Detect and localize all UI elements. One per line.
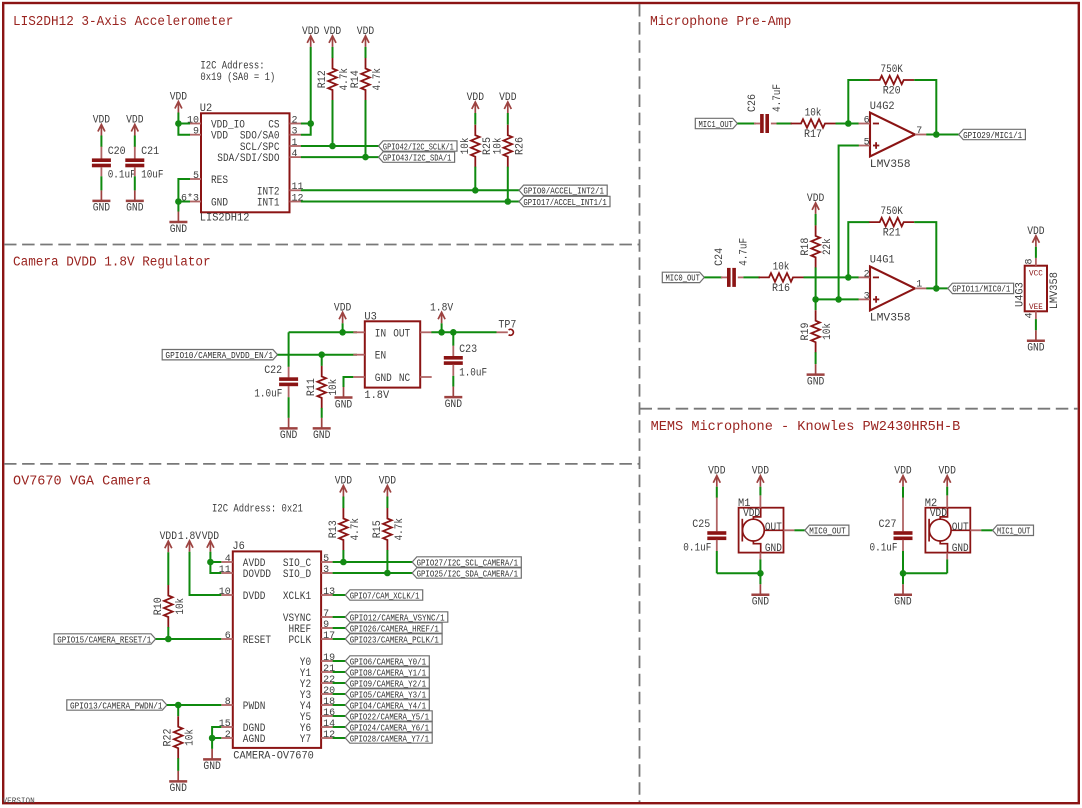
wire R12 to SCL	[332, 100, 334, 146]
svg-text:NC: NC	[399, 373, 411, 385]
svg-text:1.8V: 1.8V	[178, 531, 202, 543]
svg-text:1: 1	[916, 280, 922, 291]
svg-text:SDA/SDI/SDO: SDA/SDI/SDO	[217, 153, 280, 165]
VDD power symbol (R15)	[384, 486, 391, 497]
svg-text:GND: GND	[1027, 343, 1045, 355]
svg-text:MEMS Microphone - Knowles PW24: MEMS Microphone - Knowles PW2430HR5H-B	[651, 420, 961, 435]
GND power symbol (R22)	[169, 771, 187, 782]
svg-text:C23: C23	[459, 344, 477, 356]
wire U4G3 VEE to GND	[1035, 319, 1037, 330]
svg-text:12: 12	[323, 730, 335, 741]
capacitor C23 lower lead	[452, 365, 454, 376]
svg-text:VDD: VDD	[202, 531, 220, 543]
wire VDD to U4G3 VCC	[1035, 247, 1037, 258]
svg-text:15: 15	[219, 719, 231, 730]
svg-text:7: 7	[916, 126, 922, 137]
resistor R16 10k	[759, 273, 804, 282]
wire SIO_C to label	[333, 561, 413, 563]
svg-text:Y7: Y7	[300, 734, 311, 746]
svg-text:VDD: VDD	[335, 476, 353, 488]
svg-text:VDD: VDD	[499, 92, 517, 104]
svg-text:RESET: RESET	[243, 635, 272, 647]
wire U2 INT1 to label	[301, 201, 519, 203]
svg-text:GPIO28/CAMERA_Y7/1: GPIO28/CAMERA_Y7/1	[350, 734, 429, 744]
svg-text:6: 6	[225, 631, 231, 642]
svg-text:20: 20	[323, 686, 335, 697]
svg-text:4.7uF: 4.7uF	[739, 238, 751, 266]
junction SIO_C net	[340, 559, 347, 566]
GND power symbol (R11)	[313, 418, 331, 429]
hierarchical label GPIO7/CAM_XCLK/1	[345, 590, 422, 600]
svg-text:5: 5	[193, 171, 199, 182]
wire ground rail	[717, 572, 761, 574]
svg-text:EN: EN	[375, 351, 386, 363]
capacitor C21 10uF	[125, 158, 144, 167]
M1 VDD pin stub	[759, 495, 761, 507]
svg-text:GND: GND	[445, 399, 463, 411]
wire R25 to INT2	[474, 167, 476, 191]
svg-text:LMV358: LMV358	[870, 159, 911, 171]
wire U3 GND pin to GND	[344, 377, 354, 387]
wire M1 GND pin down	[759, 559, 761, 573]
svg-text:RES: RES	[211, 175, 228, 187]
VDD power symbol (U3 IN)	[339, 312, 346, 323]
svg-text:10k: 10k	[805, 108, 822, 120]
hierarchical label GPIO11/MIC0/1	[948, 283, 1014, 293]
hierarchical label GPIO12/CAMERA_VSYNC/1	[345, 612, 448, 622]
svg-text:VCC: VCC	[1029, 269, 1043, 279]
svg-text:VDD: VDD	[357, 26, 375, 38]
wire U2 SCL/SPC to label	[301, 145, 379, 147]
junction C23	[450, 329, 457, 336]
GND power symbol (C20)	[92, 190, 110, 201]
svg-text:21: 21	[323, 664, 335, 675]
svg-text:4: 4	[292, 149, 298, 160]
svg-text:IN: IN	[375, 328, 386, 340]
junction EN/R11 net	[318, 351, 325, 358]
svg-text:R14: R14	[350, 70, 362, 88]
hierarchical label GPIO4/CAMERA_Y4/1	[345, 700, 429, 710]
junction 1.8V power flag	[438, 329, 445, 336]
svg-text:R11: R11	[306, 378, 318, 396]
svg-text:GPIO23/CAMERA_PCLK/1: GPIO23/CAMERA_PCLK/1	[350, 635, 439, 645]
svg-text:VDD: VDD	[302, 26, 320, 38]
wire U4G1 output to label	[926, 287, 948, 289]
svg-text:17: 17	[323, 631, 335, 642]
svg-text:18: 18	[323, 697, 335, 708]
svg-text:VDD: VDD	[126, 115, 144, 127]
capacitor C21 lower lead	[134, 167, 136, 176]
svg-text:GND: GND	[170, 783, 188, 795]
test point TP7	[497, 331, 508, 333]
svg-text:VEE: VEE	[1029, 302, 1043, 312]
svg-text:VDD: VDD	[939, 466, 957, 478]
svg-text:VDD_IO: VDD_IO	[211, 120, 245, 132]
svg-text:8: 8	[225, 697, 231, 708]
svg-text:GPIO8/CAMERA_Y1/1: GPIO8/CAMERA_Y1/1	[350, 668, 426, 678]
svg-text:4.7k: 4.7k	[394, 518, 406, 541]
hierarchical label GPIO17/ACCEL_INT1/1	[519, 196, 610, 206]
svg-text:GPIO0/ACCEL_INT2/1: GPIO0/ACCEL_INT2/1	[523, 187, 604, 197]
wire J6 to GPIO8/CAMERA_Y1/1	[333, 671, 346, 673]
svg-text:GPIO10/CAMERA_DVDD_EN/1: GPIO10/CAMERA_DVDD_EN/1	[165, 351, 273, 361]
capacitor C26 leads	[754, 123, 760, 125]
capacitor C26 4.7uF	[760, 114, 769, 133]
M2 OUT pin stub	[970, 529, 981, 531]
svg-text:4.7k: 4.7k	[372, 68, 384, 91]
junction PWDN net	[175, 702, 182, 709]
capacitor C25 long upper lead	[716, 498, 718, 532]
svg-text:TP7: TP7	[498, 319, 516, 331]
VDD power symbol (C21)	[131, 125, 138, 136]
svg-text:OV7670 VGA Camera: OV7670 VGA Camera	[13, 475, 151, 490]
wire M1 OUT to label	[794, 529, 804, 531]
svg-text:GPIO22/CAMERA_Y5/1: GPIO22/CAMERA_Y5/1	[350, 712, 429, 722]
svg-text:R12: R12	[317, 70, 329, 88]
wire pwdn label to J6 PWDN	[167, 704, 221, 706]
wire SIO_D to label	[333, 572, 413, 574]
junction bias node riser	[835, 296, 842, 303]
svg-text:SDO/SA0: SDO/SA0	[240, 131, 280, 143]
wire VDD to C21	[134, 136, 136, 148]
svg-text:VDD: VDD	[743, 508, 760, 520]
svg-text:10k: 10k	[492, 137, 504, 154]
svg-text:Camera DVDD 1.8V Regulator: Camera DVDD 1.8V Regulator	[13, 255, 211, 270]
svg-text:VDD: VDD	[930, 508, 947, 520]
svg-text:10uF: 10uF	[141, 170, 163, 182]
svg-text:XCLK1: XCLK1	[283, 591, 312, 603]
hierarchical label GPIO6/CAMERA_Y0/1	[345, 656, 429, 666]
wire VDD to C27	[902, 487, 904, 498]
svg-text:9: 9	[323, 620, 329, 631]
wire VDD stub	[342, 323, 344, 332]
VDD power symbol (R25)	[472, 102, 479, 113]
svg-text:3: 3	[323, 565, 329, 576]
svg-text:VERSION: VERSION	[3, 797, 35, 806]
capacitor C22 lower lead	[288, 386, 290, 397]
GND power symbol (U2)	[169, 212, 187, 223]
wire 1.8V to J6 DVDD	[190, 552, 222, 595]
wire C24 to R16	[743, 276, 760, 278]
svg-text:GND: GND	[335, 399, 353, 411]
svg-text:R10: R10	[153, 597, 165, 615]
svg-text:16: 16	[323, 708, 335, 719]
wire J6 to GPIO9/CAMERA_Y2/1	[333, 682, 346, 684]
wire ground rail	[903, 572, 947, 574]
svg-text:R21: R21	[883, 228, 901, 240]
junction inverting input node U4G2	[845, 120, 852, 127]
wire XCLK1 to label	[333, 594, 346, 596]
junction VDD at U3 IN	[339, 329, 346, 336]
M1 OUT pin stub	[784, 529, 795, 531]
wire AGND	[212, 737, 221, 739]
vertical dashed section divider	[639, 4, 641, 802]
svg-text:AGND: AGND	[243, 734, 266, 746]
resistor R20 750K feedback	[869, 76, 914, 85]
wire OUT down to C23	[452, 332, 454, 346]
wire PWDN down to R22	[177, 705, 179, 716]
wire J6 to GPIO12/CAMERA_VSYNC/1	[333, 616, 346, 618]
svg-text:3: 3	[864, 292, 870, 303]
wire R17 to U4G2 inverting input	[836, 123, 859, 125]
svg-text:1.8V: 1.8V	[430, 302, 454, 314]
wire J6 to GPIO4/CAMERA_Y4/1	[333, 704, 346, 706]
svg-text:CAMERA-OV7670: CAMERA-OV7670	[233, 751, 314, 763]
svg-text:0.1uF: 0.1uF	[870, 543, 898, 555]
1.8V power symbol (DVDD)	[186, 541, 193, 552]
hierarchical label GPIO9/CAMERA_Y2/1	[345, 678, 429, 688]
resistor R12 4.7k pullup	[328, 58, 337, 101]
hierarchical label MIC1_OUT	[993, 525, 1034, 535]
M2 VDD pin stub	[946, 495, 948, 507]
capacitor C27 long upper lead	[902, 498, 904, 532]
svg-text:GPIO27/I2C_SCL_CAMERA/1: GPIO27/I2C_SCL_CAMERA/1	[417, 558, 518, 568]
svg-text:LIS2DH12 3-Axis Accelerometer: LIS2DH12 3-Axis Accelerometer	[13, 15, 233, 30]
VDD power symbol (M2)	[944, 476, 951, 487]
capacitor C23 1.0uF	[444, 356, 463, 365]
wire R18 to bias node	[815, 267, 817, 299]
hierarchical label GPIO24/CAMERA_Y6/1	[345, 722, 432, 732]
wire VDD to U2 pin 9	[178, 113, 190, 135]
wire VDD to R25	[474, 113, 476, 125]
svg-text:CS: CS	[268, 120, 280, 132]
wire MIC1_OUT to C26	[737, 123, 755, 125]
hierarchical label MIC0_OUT	[662, 272, 704, 282]
hierarchical label GPIO29/MIC1/1	[959, 129, 1026, 139]
wire J6 to GPIO22/CAMERA_Y5/1	[333, 715, 346, 717]
svg-text:4.7uF: 4.7uF	[772, 84, 784, 112]
junction CS/SDO net	[307, 120, 314, 127]
svg-text:0.1uF: 0.1uF	[108, 170, 136, 182]
svg-text:MIC0_OUT: MIC0_OUT	[666, 274, 701, 284]
svg-text:GND: GND	[807, 376, 825, 388]
IC U4G3 LMV358 power unit	[1025, 266, 1047, 312]
GND power symbol (M2 channel)	[894, 584, 912, 595]
wire R14 to SDA	[365, 100, 367, 157]
hierarchical label GPIO26/CAMERA_HREF/1	[345, 623, 442, 633]
VDD power symbol (M1)	[757, 476, 764, 487]
GND power symbol (M1 channel)	[751, 584, 769, 595]
wire R20 to output node	[914, 80, 936, 135]
svg-text:R15: R15	[372, 520, 384, 538]
svg-text:GPIO4/CAMERA_Y4/1: GPIO4/CAMERA_Y4/1	[350, 701, 426, 711]
resistor R25 10k pullup	[471, 125, 480, 168]
svg-text:22: 22	[323, 675, 335, 686]
GND power symbol (C21)	[126, 190, 144, 201]
wire J6 to GPIO28/CAMERA_Y7/1	[333, 737, 346, 739]
svg-text:GND: GND	[280, 430, 298, 442]
svg-text:GPIO9/CAMERA_Y2/1: GPIO9/CAMERA_Y2/1	[350, 679, 426, 689]
svg-text:VDD: VDD	[324, 26, 342, 38]
capacitor C20 lead	[100, 147, 102, 159]
svg-text:1.8V: 1.8V	[364, 390, 389, 402]
svg-text:U3: U3	[364, 311, 376, 323]
svg-text:OUT: OUT	[393, 328, 410, 340]
wire M2 GND pin down	[946, 559, 948, 573]
resistor R10 10k	[164, 585, 173, 628]
wire C23 to GND	[452, 376, 454, 387]
svg-text:VDD: VDD	[752, 466, 770, 478]
svg-text:I2C Address: 0x21: I2C Address: 0x21	[212, 503, 303, 515]
VDD power symbol (C25)	[713, 476, 720, 487]
capacitor C27 lower lead	[902, 540, 904, 551]
svg-text:GPIO12/CAMERA_VSYNC/1: GPIO12/CAMERA_VSYNC/1	[350, 613, 445, 623]
M1 GND pin stub	[759, 553, 761, 560]
svg-text:GND: GND	[211, 198, 228, 210]
svg-text:750K: 750K	[881, 206, 904, 218]
VDD power symbol (R14)	[362, 36, 369, 47]
wire R16 to U4G1 inverting input	[804, 276, 859, 278]
wire 1.8V stub	[441, 323, 443, 332]
wire R11 to GND	[321, 408, 323, 418]
hierarchical label GPIO15/CAMERA_RESET/1	[54, 634, 156, 644]
capacitor C25 lower lead	[716, 540, 718, 551]
svg-text:5: 5	[864, 138, 870, 149]
resistor R26 10k pullup	[504, 125, 513, 168]
wire ground rail to GND	[759, 573, 761, 584]
VDD power symbol (R13)	[340, 486, 347, 497]
svg-text:GPIO25/I2C_SDA_CAMERA/1: GPIO25/I2C_SDA_CAMERA/1	[417, 569, 518, 579]
wire J6 to GPIO5/CAMERA_Y3/1	[333, 693, 346, 695]
wire VDD to R10	[167, 552, 169, 585]
resistor R13 4.7k pullup	[339, 508, 348, 551]
svg-text:U4G2: U4G2	[870, 101, 895, 113]
wire R15 to SIO_D	[386, 550, 388, 573]
wire VDD to R13	[342, 497, 344, 509]
junction SCL net	[329, 143, 336, 150]
svg-text:GPIO13/CAMERA_PWDN/1: GPIO13/CAMERA_PWDN/1	[70, 701, 163, 711]
svg-text:R19: R19	[800, 322, 812, 340]
microphone M2 Knowles PW2430HR5H-B	[925, 508, 970, 553]
svg-text:VDD: VDD	[894, 466, 912, 478]
svg-text:C27: C27	[879, 519, 897, 531]
junction AVDD/DOVDD net	[207, 559, 214, 566]
svg-text:1.0uF: 1.0uF	[254, 389, 282, 401]
VDD power symbol (bias divider)	[812, 203, 819, 214]
wire VDD to C25	[716, 487, 718, 498]
pin 8 stub (VCC)	[1035, 258, 1037, 266]
svg-text:R13: R13	[328, 520, 340, 538]
wire VDD to R26	[507, 113, 509, 125]
svg-text:4: 4	[1024, 312, 1035, 318]
junction VDD net at U2	[175, 120, 182, 127]
hierarchical label MIC0_OUT	[805, 525, 849, 535]
svg-text:9: 9	[193, 127, 199, 138]
wire U4G2 non-inverting input to bias node	[839, 146, 859, 300]
svg-text:10k: 10k	[822, 323, 834, 340]
svg-text:0x19 (SA0 = 1): 0x19 (SA0 = 1)	[200, 72, 275, 84]
junction SIO_D net	[384, 570, 391, 577]
junction DGND/AGND net	[209, 735, 216, 742]
svg-text:2: 2	[292, 115, 298, 126]
svg-text:8: 8	[1024, 258, 1035, 264]
svg-text:GPIO17/ACCEL_INT1/1: GPIO17/ACCEL_INT1/1	[523, 198, 606, 208]
svg-text:2: 2	[225, 730, 231, 741]
capacitor C20 lower lead	[100, 167, 102, 176]
wire feedback up to R20	[848, 80, 869, 124]
svg-text:GPIO43/I2C_SDA/1: GPIO43/I2C_SDA/1	[383, 153, 452, 163]
svg-text:VDD: VDD	[211, 131, 228, 143]
GND power symbol (J6 grounds)	[203, 749, 221, 760]
hierarchical label GPIO10/CAMERA_DVDD_EN/1	[162, 350, 277, 360]
wire MIC0_OUT to C24	[704, 276, 722, 278]
svg-text:GPIO6/CAMERA_Y0/1: GPIO6/CAMERA_Y0/1	[350, 657, 426, 667]
svg-text:R18: R18	[800, 238, 812, 256]
wire C20 to GND	[100, 176, 102, 190]
svg-text:19: 19	[323, 653, 335, 664]
wire C27 to ground rail	[902, 551, 904, 573]
wire J6 to GPIO24/CAMERA_Y6/1	[333, 726, 346, 728]
capacitor C23 upper lead	[452, 346, 454, 356]
op-amp U4G2 LMV358	[870, 113, 915, 157]
svg-text:VDD: VDD	[379, 476, 397, 488]
svg-text:J6: J6	[232, 541, 244, 553]
op-amp U4G1 LMV358	[870, 266, 915, 310]
wire R22 to GND	[177, 758, 179, 771]
resistor R14 4.7k pullup	[361, 58, 370, 101]
VDD power symbol (C27)	[900, 476, 907, 487]
svg-text:13: 13	[323, 587, 335, 598]
wire M2 OUT to label	[981, 529, 992, 531]
dashed divider below accelerometer section	[4, 244, 640, 246]
wire R21 to output node	[914, 222, 936, 288]
wire U2 SDO/SA0 up to CS net	[301, 124, 311, 135]
wire IN net down to C22	[288, 332, 290, 367]
svg-text:MIC1_OUT: MIC1_OUT	[699, 120, 734, 130]
junction output node U4G2	[933, 131, 940, 138]
svg-text:SIO_D: SIO_D	[283, 569, 312, 581]
wire J6 to GPIO23/CAMERA_PCLK/1	[333, 638, 346, 640]
GND power symbol (C23)	[444, 387, 462, 398]
svg-text:GND: GND	[752, 597, 770, 609]
svg-text:1.0uF: 1.0uF	[459, 367, 487, 379]
junction INT2 net	[472, 187, 479, 194]
svg-text:VDD: VDD	[93, 115, 111, 127]
svg-text:10k: 10k	[460, 137, 472, 154]
svg-text:6: 6	[864, 116, 870, 127]
wire VDD to J6 AVDD	[210, 561, 221, 563]
svg-text:1: 1	[292, 138, 298, 149]
wire R10 to RESET	[167, 627, 169, 639]
hierarchical label GPIO5/CAMERA_Y3/1	[345, 689, 429, 699]
wire R13 to SIO_C	[342, 550, 344, 562]
capacitor C27 0.1uF	[894, 531, 913, 540]
svg-text:4.7k: 4.7k	[350, 518, 362, 541]
VDD power symbol (R12)	[329, 36, 336, 47]
svg-text:VDD: VDD	[467, 92, 485, 104]
wire U2 GND pin	[178, 201, 190, 203]
capacitor C22 upper lead	[288, 367, 290, 378]
M2 GND pin stub	[946, 553, 948, 560]
wire VDD to M1	[759, 487, 761, 496]
wire EN net down to R11	[321, 355, 323, 366]
wire VDD down to CS	[310, 47, 312, 124]
wire VDD to J6 DOVDD	[210, 552, 221, 573]
svg-text:5: 5	[323, 554, 329, 565]
wire VDD to R15	[386, 497, 388, 509]
capacitor C20 0.1uF	[92, 158, 111, 167]
svg-text:2: 2	[864, 270, 870, 281]
svg-text:10k: 10k	[328, 378, 340, 395]
GND power symbol (U3 GND pin)	[335, 387, 353, 398]
svg-text:0.1uF: 0.1uF	[683, 543, 711, 555]
svg-text:GND: GND	[952, 543, 969, 555]
resistor R22 10k	[174, 716, 183, 759]
svg-text:11: 11	[219, 565, 231, 576]
dashed divider below regulator section	[4, 463, 640, 465]
svg-text:GPIO15/CAMERA_RESET/1: GPIO15/CAMERA_RESET/1	[57, 635, 151, 645]
svg-text:C20: C20	[108, 146, 126, 158]
